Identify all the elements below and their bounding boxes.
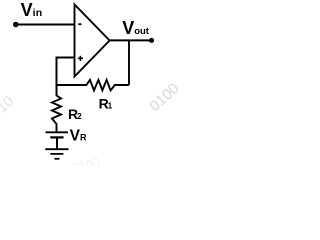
svg-text:Vout: Vout bbox=[122, 18, 150, 38]
svg-text:0100: 0100 bbox=[146, 80, 180, 115]
resistor R2 bbox=[52, 96, 61, 132]
svg-text:R1: R1 bbox=[99, 95, 113, 111]
plus marker bbox=[78, 56, 83, 61]
wire inverting input bbox=[16, 24, 75, 26]
svg-text:R2: R2 bbox=[68, 106, 82, 122]
svg-text:0100: 0100 bbox=[71, 155, 101, 166]
node Vin bbox=[13, 22, 19, 28]
ground bbox=[45, 149, 68, 159]
resistor R1 bbox=[57, 80, 130, 91]
watermark bbox=[0, 80, 182, 175]
op-amp U1 bbox=[75, 5, 110, 77]
wire non-inverting input bbox=[56, 57, 75, 59]
wire junction vertical bbox=[56, 57, 58, 96]
node Vout bbox=[149, 38, 154, 43]
svg-text:VR: VR bbox=[70, 128, 87, 145]
minus marker bbox=[78, 23, 81, 25]
wire output bbox=[110, 39, 152, 41]
svg-text:Vin: Vin bbox=[21, 0, 43, 20]
svg-text:010: 010 bbox=[0, 93, 17, 122]
wire feedback vertical bbox=[128, 40, 130, 85]
wire battery to ground bbox=[56, 139, 58, 149]
battery VR bbox=[46, 132, 69, 137]
